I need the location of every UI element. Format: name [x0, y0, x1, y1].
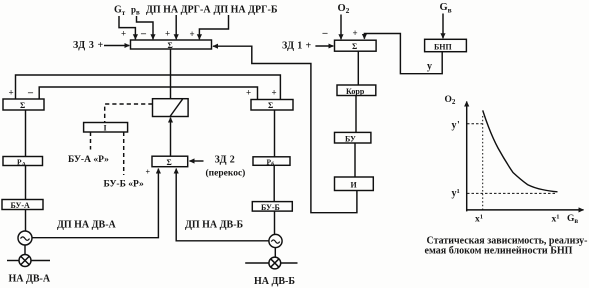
wire actuator A to valve A: [24, 245, 26, 255]
wire O2 into summator S1: [340, 15, 342, 40]
svg-text:Gв: Gв: [567, 214, 578, 225]
label ZD 2: [215, 155, 236, 166]
summator S2 (skew): [152, 156, 188, 167]
wire right summator to RB: [274, 110, 276, 157]
graph curve hyperbola: [483, 110, 558, 191]
wire feedback from I block to main summator right input: [213, 46, 357, 213]
svg-text:Σ: Σ: [352, 42, 357, 51]
dashed link switch to block I: [105, 104, 153, 123]
svg-text:ДП НА ДВ-Б: ДП НА ДВ-Б: [185, 220, 244, 231]
svg-text:БНП: БНП: [434, 42, 453, 51]
block BNP (nonlinearity): [425, 39, 467, 51]
label pv (air pressure input): [131, 5, 140, 17]
sign - left summator second input: [27, 88, 34, 99]
block Korr corrector: [337, 85, 376, 96]
svg-text:ДП НА ДРГ-Б: ДП НА ДРГ-Б: [214, 5, 278, 16]
svg-text:Корр: Корр: [346, 87, 365, 96]
block BU-B: [252, 202, 292, 212]
wire RB to BU-B: [273, 165, 275, 201]
graph label O2: [445, 95, 456, 106]
graph label x' right: [552, 213, 560, 224]
svg-text:х1: х1: [475, 213, 483, 224]
graph dashed vertical x': [482, 116, 484, 210]
svg-text:+: +: [121, 29, 126, 39]
dashed stub to BU-B P label: [123, 132, 125, 175]
graph label y': [452, 120, 461, 131]
graph: y axis: [466, 102, 468, 212]
svg-text:Gт: Gт: [114, 5, 126, 17]
svg-text:БУ-Б «Р»: БУ-Б «Р»: [104, 180, 145, 190]
wire RA to BU-A: [25, 166, 27, 200]
svg-text:НА ДВ-А: НА ДВ-А: [9, 274, 51, 285]
label DP NA DV-B: [185, 220, 244, 231]
svg-text:+: +: [246, 88, 251, 98]
caption line 1: [427, 236, 588, 247]
svg-text:–: –: [27, 88, 34, 99]
wire DP NA DRG-A input: [175, 15, 177, 39]
caption line 2: [425, 246, 573, 257]
svg-text:ЗД 1 +: ЗД 1 +: [282, 40, 312, 51]
svg-text:–: –: [140, 29, 147, 40]
svg-text:ЗД 3 +: ЗД 3 +: [73, 40, 104, 51]
label NA DV-B: [254, 276, 295, 287]
summator S0 (main top): [131, 40, 212, 49]
wire Gv into BNP: [442, 14, 444, 39]
svg-text:у1: у1: [452, 188, 460, 199]
wire Korr to BU: [355, 96, 357, 133]
wire bus upper (y=75) to left and right summators: [16, 75, 281, 100]
wire main summator output stem down to switch: [170, 49, 172, 99]
block I (logic): [84, 123, 128, 133]
valve A (circle with X): [19, 255, 31, 267]
actuator B (sine circle): [269, 234, 282, 247]
block BU-A: [2, 200, 43, 210]
block I integrator: [335, 177, 374, 191]
label BU-B "R": [104, 180, 145, 190]
block RA regulator: [3, 157, 43, 166]
svg-text:+: +: [353, 28, 358, 38]
label NA DV-A: [9, 274, 51, 285]
sign + at Gt input: [121, 29, 126, 39]
svg-text:+: +: [146, 168, 151, 177]
graph dashed level y': [467, 123, 483, 125]
graph label y1: [452, 188, 460, 199]
svg-text:О2: О2: [445, 95, 456, 106]
svg-text:ДП НА ДРГ-А: ДП НА ДРГ-А: [146, 5, 211, 16]
svg-text:у': у': [452, 120, 461, 131]
sign + at DRG-A input: [165, 29, 170, 39]
svg-text:Σ: Σ: [167, 158, 172, 167]
sign + at DRG-B input: [190, 29, 195, 39]
svg-text:pв: pв: [131, 5, 140, 17]
label DP NA DRG-B: [214, 5, 278, 16]
wire pv input: [137, 16, 154, 39]
graph: x axis: [467, 209, 584, 211]
svg-text:БУ: БУ: [345, 134, 356, 143]
wire S1 to Korr: [357, 51, 359, 85]
sign + at S1 right top input: [353, 28, 358, 38]
sign + left summator first input: [9, 88, 14, 98]
svg-text:О2: О2: [338, 3, 350, 15]
label BU-A "R": [68, 155, 109, 165]
svg-text:у: у: [427, 61, 432, 72]
wire ZD2 arrow into S2: [190, 160, 204, 162]
wire arrow from mid summator up into switch: [170, 118, 172, 156]
svg-text:ДП НА ДВ-А: ДП НА ДВ-А: [57, 220, 117, 231]
graph label x' left: [475, 213, 483, 224]
svg-text:Σ: Σ: [268, 101, 273, 110]
svg-text:И: И: [351, 181, 358, 190]
dashed stub to BU-A P label: [90, 132, 92, 150]
svg-text:БУ-А: БУ-А: [11, 201, 31, 210]
svg-text:БУ-А «Р»: БУ-А «Р»: [68, 155, 109, 165]
wire BU-A to actuator A: [25, 210, 27, 232]
sign + at S2 lower left: [146, 168, 151, 177]
label Gt (fuel flow input): [114, 5, 126, 17]
svg-text:(перекос): (перекос): [206, 168, 246, 179]
sign - at pv input: [140, 29, 147, 40]
wire ZD1 arrow into S1: [315, 45, 333, 47]
sign + right summator first input: [246, 88, 251, 98]
sign + right summator second input: [272, 88, 277, 98]
graph label Gv axis: [567, 214, 578, 225]
label y at BNP output: [427, 61, 432, 72]
svg-text:НА ДВ-Б: НА ДВ-Б: [254, 276, 295, 287]
svg-text:+: +: [190, 29, 195, 39]
svg-text:х1: х1: [552, 213, 560, 224]
svg-text:+: +: [165, 29, 170, 39]
summator SA (left): [3, 99, 44, 110]
graph dashed level y1: [467, 192, 557, 194]
wire DP NA DV-A from actuator A to S2: [32, 169, 158, 238]
wire actuator B to valve B: [274, 248, 276, 258]
svg-text:Σ: Σ: [20, 101, 25, 110]
pipe line at valve A: [7, 260, 19, 262]
svg-text:Gв: Gв: [440, 2, 452, 14]
block RB regulator: [253, 157, 290, 166]
label ZD 3 setpoint: [73, 40, 104, 51]
wire DP NA DV-B from actuator B to S2: [176, 169, 269, 241]
wire ZD3 arrow into main summator: [104, 45, 129, 47]
pipe line at valve B: [245, 262, 269, 264]
wire BNP output y to S1: [364, 34, 442, 74]
svg-text:Σ: Σ: [168, 41, 173, 50]
label DP NA DRG-A: [146, 5, 211, 16]
svg-text:БУ-Б: БУ-Б: [261, 203, 280, 212]
label perekos: [206, 168, 246, 179]
wire bus lower (y=87) to left and right summators: [39, 87, 257, 100]
switch block (relay with diagonal): [153, 99, 189, 117]
wire DP NA DRG-B input: [199, 15, 228, 39]
valve B (circle with X): [269, 257, 281, 269]
block BU control unit: [335, 132, 371, 143]
svg-text:+: +: [9, 88, 14, 98]
svg-text:емая блоком нелинейности БНП: емая блоком нелинейности БНП: [425, 246, 573, 257]
wire BU to I block: [354, 143, 356, 177]
svg-text:+: +: [272, 88, 277, 98]
svg-text:ЗД 2: ЗД 2: [215, 155, 236, 166]
wire BU-B to actuator B: [274, 211, 276, 234]
svg-text:I: I: [104, 124, 107, 133]
actuator A (sine circle): [18, 231, 32, 245]
wire left summator to RA: [25, 110, 27, 157]
label O2 input: [338, 3, 350, 15]
wire Gt input: [119, 16, 135, 39]
summator S1 (O2): [335, 40, 377, 51]
summator SB (right): [251, 100, 293, 111]
svg-text:–: –: [322, 28, 329, 39]
label Gv air flow: [440, 2, 452, 14]
sign - at O2 input: [322, 28, 329, 39]
label ZD 1: [282, 40, 312, 51]
label DP NA DV-A: [57, 220, 117, 231]
